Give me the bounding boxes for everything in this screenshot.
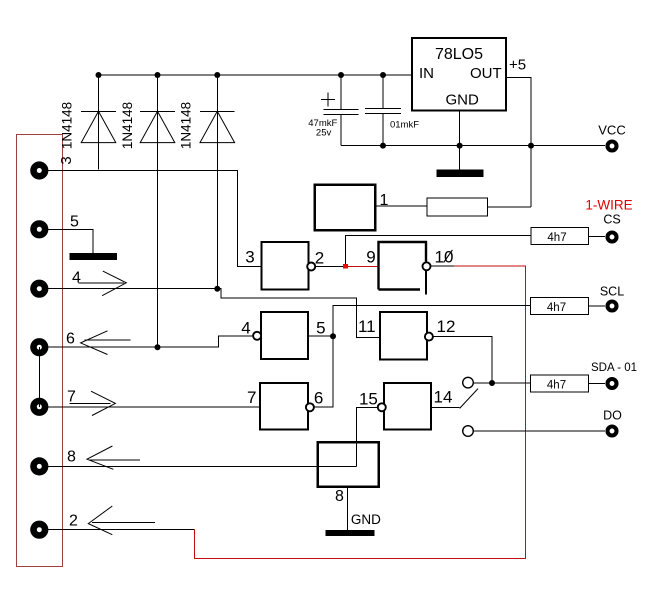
inverter U1A pins 3-2 (262, 242, 309, 290)
connector J1 outline (17, 135, 63, 567)
svg-text:GND: GND (351, 512, 381, 527)
svg-text:VCC: VCC (598, 123, 625, 138)
ground bar pin5 (70, 253, 118, 260)
svg-text:1N4148: 1N4148 (60, 102, 75, 149)
wire capacitor bottom bus (341, 145, 605, 147)
terminal CS (608, 233, 617, 242)
resistor R2 4h7 CS (531, 228, 589, 245)
svg-text:4h7: 4h7 (547, 302, 566, 314)
inverter U1D pins 11-12 (380, 312, 427, 360)
switch contact upper (463, 377, 474, 388)
svg-text:6: 6 (314, 389, 323, 408)
wire SCL riser and line (333, 306, 531, 337)
svg-text:6: 6 (66, 331, 75, 348)
wire pin2 black segment (48, 529, 195, 531)
svg-text:11: 11 (358, 317, 376, 336)
svg-text:1-WIRE: 1-WIRE (585, 198, 632, 213)
wire pin4 net to pin11 (217, 289, 380, 338)
wire DO line (474, 430, 605, 432)
capacitor C1 47mkF 25v (321, 75, 359, 146)
wire U1F input from pin8 riser (356, 407, 377, 466)
wire node5 down to U1E out (314, 336, 333, 407)
node C2 bottom (380, 143, 386, 149)
connector pad pin4 (30, 280, 48, 298)
connector pad pin6 (30, 338, 48, 356)
terminal SCL (608, 302, 617, 311)
resistor R3 4h7 SCL (531, 298, 589, 315)
svg-text:SDA - 01: SDA - 01 (591, 362, 637, 374)
wire R3 to SCL terminal (589, 305, 605, 307)
svg-text:15: 15 (359, 390, 378, 409)
connector pad pin7 (30, 398, 48, 416)
capacitor C2 01mkF (365, 75, 401, 146)
node bus-C1 (338, 72, 344, 78)
arrow pin4 out (79, 271, 127, 296)
wire box8 to ground (347, 487, 349, 530)
wire U1C out to node5 (308, 335, 333, 337)
wire U1A out to U1B in (315, 265, 345, 267)
wire OUT to +5 rail (506, 77, 531, 207)
terminal DO (608, 427, 617, 436)
svg-text:5: 5 (70, 214, 79, 231)
wire R4 to SDA terminal (589, 383, 605, 385)
svg-text:12: 12 (437, 317, 456, 336)
svg-text:4: 4 (241, 319, 250, 338)
node red junction (343, 264, 348, 269)
svg-text:2: 2 (69, 513, 78, 530)
svg-text:GND: GND (446, 92, 480, 109)
wire pin5 to ground (48, 229, 93, 253)
wire regulator GND stem (459, 111, 461, 170)
terminal SDA (608, 379, 617, 388)
svg-text:4h7: 4h7 (547, 232, 566, 244)
svg-text:5: 5 (316, 319, 325, 338)
node SDA junction (489, 380, 495, 386)
inverter U1B pins 9-10 (379, 242, 427, 290)
node bus-D1 (96, 72, 102, 78)
box U3 pin1 device (315, 185, 376, 231)
svg-text:1N4148: 1N4148 (179, 102, 194, 149)
box U4 pin8 device (318, 442, 379, 487)
wire pin6 to gate U1C input (48, 336, 253, 347)
node pin6-D2 (155, 344, 161, 350)
svg-text:14: 14 (434, 388, 453, 407)
wire top bus to IN (99, 74, 413, 76)
connector pad pin3 (30, 161, 48, 179)
svg-text:10: 10 (435, 248, 454, 267)
wire CS riser (346, 235, 532, 264)
terminal VCC (608, 142, 617, 151)
wire pin8 to gate U1F input riser (48, 465, 356, 467)
node +5 feed (528, 143, 534, 149)
arrow pin8 in (87, 446, 140, 469)
svg-text:SCL: SCL (600, 285, 624, 299)
wire pin1 to resistor (375, 205, 427, 207)
resistor R4 4h7 SDA (531, 375, 589, 392)
diode D2 1N4148 (140, 75, 175, 347)
diode D1 1N4148 (81, 75, 116, 170)
ground bar under regulator (437, 170, 484, 178)
regulator U2 78L05 (412, 38, 506, 111)
wire pin3 to gate U1A input (48, 170, 262, 266)
inverter U1F pins 15-14 input bubble (384, 383, 431, 430)
arrow pin7 out (70, 391, 116, 415)
inverter U1E pins 7-6 (260, 383, 308, 430)
svg-text:IN: IN (419, 65, 434, 82)
svg-text:4h7: 4h7 (547, 380, 566, 392)
svg-text:8: 8 (67, 449, 76, 466)
arrow pin6 in (81, 331, 131, 355)
connector pad pin2 (30, 521, 48, 539)
svg-text:CS: CS (603, 213, 620, 227)
svg-text:78LO5: 78LO5 (435, 46, 483, 63)
svg-text:7: 7 (247, 388, 256, 407)
svg-text:+5: +5 (509, 57, 526, 74)
svg-text:3: 3 (58, 156, 75, 164)
wire U1F out to switch (431, 407, 460, 409)
wire upper contact to SDA node (474, 382, 531, 384)
inverter U1C pins 4-5 input bubble (261, 312, 308, 359)
wire pad6-pad7 link (38, 347, 40, 407)
svg-text:9: 9 (366, 248, 375, 267)
connector pad pin5 (30, 220, 48, 238)
ground bar bottom (326, 530, 375, 536)
arrow pin2 in (88, 506, 155, 535)
wire red loop pin2 to gate U1B output (195, 266, 526, 558)
wire resistor R1 to +5 rail (488, 206, 531, 208)
svg-text:OUT: OUT (470, 65, 502, 82)
svg-text:25v: 25v (316, 128, 332, 139)
svg-text:8: 8 (335, 488, 344, 505)
wire U1D out to SDA node (433, 337, 492, 383)
svg-text:4: 4 (72, 270, 81, 287)
node pin4-D3 (214, 286, 220, 292)
connector pad pin8 (30, 457, 48, 475)
svg-text:3: 3 (245, 248, 254, 267)
switch contact lower (463, 426, 474, 437)
wire U1B out black segment (431, 265, 454, 267)
svg-text:1N4148: 1N4148 (120, 102, 135, 149)
wire pin4 to gate U1D input (48, 288, 217, 290)
wire R2 to CS terminal (589, 236, 605, 238)
node bus-C2 (380, 72, 386, 78)
node 5 junction (330, 333, 336, 339)
wire VCC feed (531, 145, 605, 147)
wire pin7 to gate U1E input (48, 406, 260, 408)
node GND tap (457, 143, 463, 149)
svg-text:2: 2 (315, 249, 324, 268)
resistor R1 (427, 198, 488, 216)
node bus-D2 (155, 72, 161, 78)
diode D3 1N4148 (200, 75, 235, 289)
svg-text:01mkF: 01mkF (390, 120, 419, 131)
svg-text:DO: DO (603, 409, 622, 423)
switch lever (460, 389, 478, 409)
node bus-D3 (214, 72, 220, 78)
